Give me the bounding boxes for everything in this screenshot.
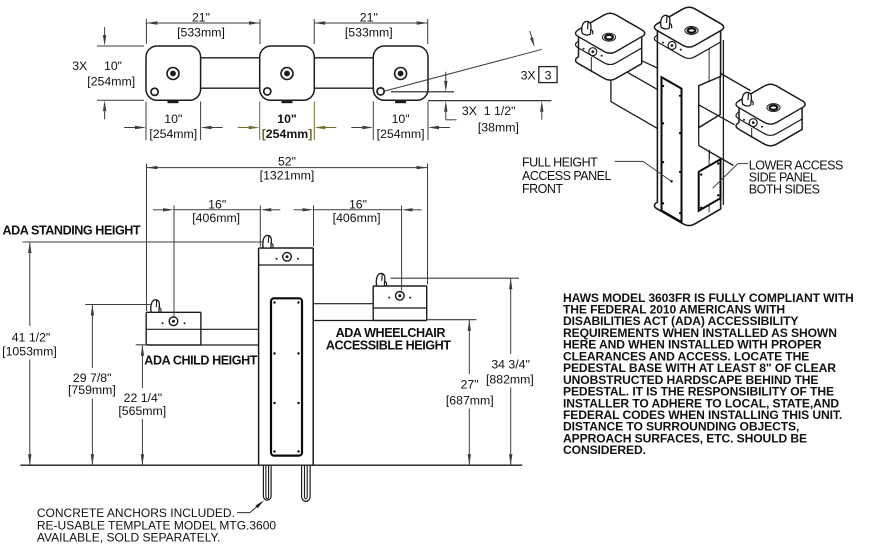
- svg-text:BOTH SIDES: BOTH SIDES: [749, 183, 820, 197]
- svg-text:21": 21": [360, 11, 378, 25]
- svg-text:[565mm]: [565mm]: [118, 404, 166, 418]
- svg-text:[254mm]: [254mm]: [149, 127, 197, 141]
- svg-text:ADA CHILD HEIGHT: ADA CHILD HEIGHT: [144, 353, 257, 367]
- svg-text:FULL HEIGHT: FULL HEIGHT: [522, 156, 598, 170]
- svg-text:[533mm]: [533mm]: [345, 26, 393, 40]
- svg-text:ACCESS PANEL: ACCESS PANEL: [522, 169, 611, 183]
- svg-text:[882mm]: [882mm]: [486, 373, 534, 387]
- svg-text:10": 10": [104, 59, 122, 73]
- svg-text:3X: 3X: [72, 59, 87, 73]
- svg-text:[406mm]: [406mm]: [333, 211, 381, 225]
- svg-text:10": 10": [164, 112, 182, 126]
- svg-text:[38mm]: [38mm]: [478, 121, 519, 135]
- svg-text:AVAILABLE, SOLD SEPARATELY.: AVAILABLE, SOLD SEPARATELY.: [37, 531, 220, 545]
- svg-text:[759mm]: [759mm]: [68, 383, 116, 397]
- svg-text:10": 10": [277, 112, 297, 126]
- svg-text:22 1/4": 22 1/4": [124, 391, 163, 405]
- svg-text:34 3/4": 34 3/4": [491, 358, 530, 372]
- svg-text:16": 16": [349, 197, 367, 211]
- svg-text:3: 3: [545, 69, 552, 83]
- svg-text:41 1/2": 41 1/2": [12, 331, 51, 345]
- svg-text:27": 27": [461, 377, 479, 391]
- svg-text:ACCESSIBLE HEIGHT: ACCESSIBLE HEIGHT: [326, 338, 451, 352]
- svg-text:ADA STANDING HEIGHT: ADA STANDING HEIGHT: [3, 224, 141, 238]
- svg-text:16": 16": [208, 197, 226, 211]
- svg-text:[254mm]: [254mm]: [377, 127, 425, 141]
- svg-text:3X 1 1/2": 3X 1 1/2": [462, 104, 516, 118]
- svg-text:3X: 3X: [521, 69, 536, 83]
- svg-text:52": 52": [278, 155, 296, 169]
- svg-text:[687mm]: [687mm]: [446, 394, 494, 408]
- svg-text:21": 21": [192, 11, 210, 25]
- svg-text:10": 10": [392, 112, 410, 126]
- svg-text:[533mm]: [533mm]: [177, 26, 225, 40]
- svg-text:[254mm]: [254mm]: [87, 75, 135, 89]
- svg-text:[1321mm]: [1321mm]: [260, 169, 315, 183]
- svg-text:CONSIDERED.: CONSIDERED.: [563, 443, 646, 457]
- svg-text:[1053mm]: [1053mm]: [2, 345, 57, 359]
- svg-text:[254mm]: [254mm]: [262, 127, 313, 141]
- svg-text:FRONT: FRONT: [522, 182, 563, 196]
- svg-text:[406mm]: [406mm]: [192, 211, 240, 225]
